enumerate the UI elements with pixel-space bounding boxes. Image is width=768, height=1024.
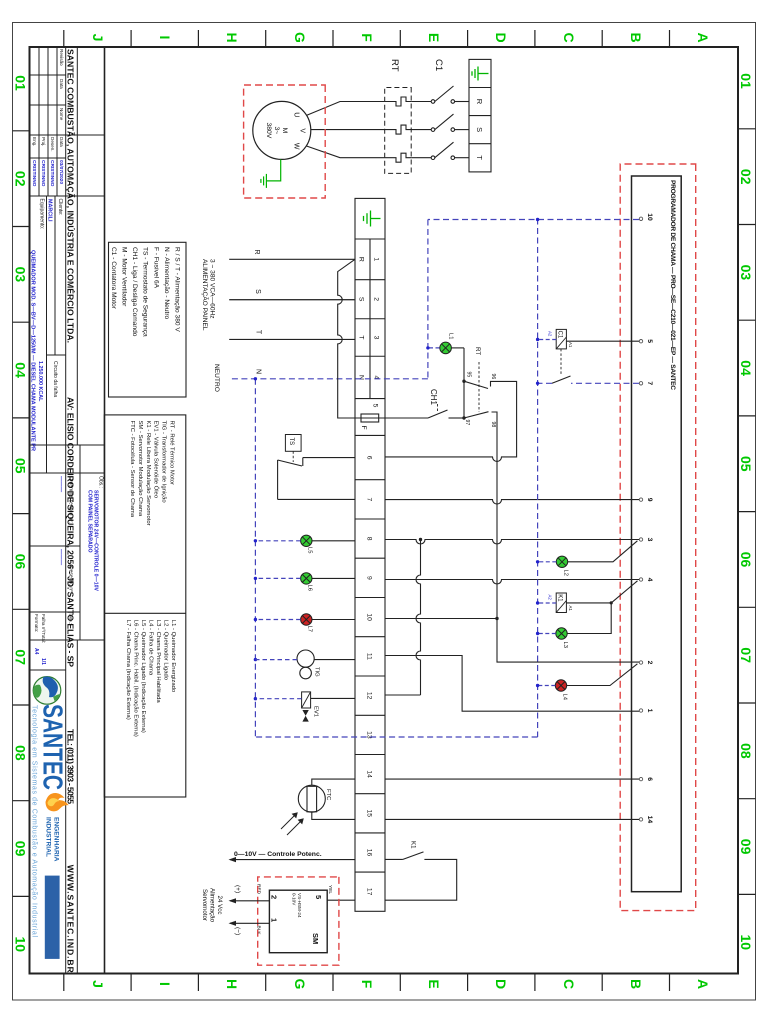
programmer terminal circles	[639, 217, 642, 821]
svg-text:Servomotor: Servomotor	[201, 889, 208, 921]
svg-text:———: ———	[58, 549, 64, 566]
svg-text:Proj.: Proj.	[41, 137, 46, 146]
wire terminal 4 diagonal to K1	[566, 581, 637, 603]
svg-text:YEL: YEL	[327, 885, 333, 894]
svg-text:Data: Data	[59, 79, 64, 89]
svg-text:10: 10	[646, 213, 653, 221]
lamp L2	[556, 556, 567, 567]
svg-text:A: A	[695, 979, 711, 989]
wire RT to motor U	[307, 102, 385, 116]
svg-text:24 Vcc: 24 Vcc	[216, 896, 223, 915]
feed labels R S T N	[253, 249, 262, 374]
svg-text:K1: K1	[557, 594, 563, 602]
SM plus wire	[230, 900, 269, 902]
svg-text:H: H	[224, 32, 240, 42]
contact C1 aux link dashed	[560, 349, 562, 374]
svg-text:S: S	[358, 297, 365, 302]
svg-text:L4 - Falha de Chama: L4 - Falha de Chama	[148, 620, 154, 676]
title block drawing number field	[58, 549, 74, 593]
svg-text:04: 04	[13, 362, 29, 378]
wire FTC to cell 15	[312, 812, 355, 819]
svg-text:09: 09	[13, 841, 29, 857]
svg-text:E: E	[426, 979, 442, 988]
svg-text:(−): (−)	[234, 927, 241, 935]
svg-text:R / S / T - Alimentação 380 V: R / S / T - Alimentação 380 V	[174, 247, 181, 332]
svg-text:1/1: 1/1	[40, 658, 46, 665]
svg-text:G: G	[292, 32, 308, 43]
svg-text:FTC - Fotocélula - Sensor de C: FTC - Fotocélula - Sensor de Chama	[129, 421, 135, 518]
svg-text:3 ~ 380 VCA—60Hz: 3 ~ 380 VCA—60Hz	[209, 259, 216, 319]
svg-text:L2: L2	[563, 570, 569, 576]
svg-text:Alimentação: Alimentação	[209, 888, 216, 923]
svg-text:380V: 380V	[265, 122, 272, 138]
svg-text:97: 97	[464, 420, 470, 426]
svg-text:Obs.:: Obs.:	[98, 476, 104, 488]
wire L3 to blue rail	[538, 633, 556, 635]
wire terminal 9 to cell 7	[385, 500, 639, 505]
blue stub L5	[255, 540, 300, 542]
svg-text:A4: A4	[33, 648, 39, 655]
svg-text:T: T	[358, 335, 365, 339]
svg-text:Tecnologia em Sistemas de Comb: Tecnologia em Sistemas de Combustão e Au…	[31, 705, 38, 937]
svg-text:L4: L4	[562, 694, 568, 701]
svg-text:V: V	[299, 128, 306, 133]
svg-text:SANTEC: SANTEC	[38, 704, 69, 790]
wire terminal 4 to cell 9	[385, 580, 639, 585]
logo blue bar	[45, 876, 60, 959]
grid tick marks bottom edge	[13, 131, 30, 897]
svg-text:L7 - Falha Chama (Indicação Ex: L7 - Falha Chama (Indicação Externa)	[125, 620, 131, 720]
title block obs field	[58, 476, 104, 592]
svg-text:A1: A1	[568, 342, 573, 348]
svg-text:CRISTINNO: CRISTINNO	[31, 160, 37, 187]
svg-text:F - Fusível 6A: F - Fusível 6A	[152, 247, 159, 289]
wire EV1 to cell 12	[311, 697, 355, 699]
svg-text:SM: SM	[311, 933, 320, 944]
logo engenharia industrial text	[45, 817, 60, 862]
programmer terminal numbers	[646, 213, 653, 823]
blue rail right leg	[255, 736, 537, 738]
title block client field	[39, 199, 64, 230]
svg-text:WWW.SANTEC.IND.BR: WWW.SANTEC.IND.BR	[66, 865, 76, 974]
red dashed box around motor	[244, 85, 326, 198]
svg-text:3: 3	[646, 538, 653, 542]
svg-text:CRISTINNO: CRISTINNO	[49, 160, 55, 187]
wire cell 10 to 98 rail	[385, 618, 497, 620]
control signal arrowhead	[229, 857, 237, 862]
wire L7 to cell 10	[312, 619, 355, 621]
svg-text:TIG - Transformador de Ignição: TIG - Transformador de Ignição	[161, 421, 167, 504]
svg-text:T: T	[475, 155, 484, 160]
svg-text:B: B	[628, 32, 644, 42]
svg-text:1: 1	[646, 709, 653, 713]
svg-text:F: F	[359, 980, 375, 989]
svg-text:7: 7	[366, 498, 373, 502]
svg-text:10: 10	[366, 613, 373, 621]
blue rail neutral top	[537, 219, 539, 738]
svg-text:N: N	[255, 369, 262, 374]
wire S phase feed	[229, 299, 355, 301]
svg-text:07: 07	[13, 649, 29, 665]
svg-text:S: S	[475, 127, 484, 132]
svg-text:M: M	[281, 128, 288, 134]
motor M1 circle	[253, 101, 311, 159]
svg-text:9: 9	[366, 576, 373, 580]
svg-text:ENGENHARIA: ENGENHARIA	[53, 817, 60, 862]
lamp L6	[301, 573, 312, 584]
svg-text:CRISTINNO: CRISTINNO	[40, 160, 46, 187]
svg-text:SANTEC COMBUSTÃO, AUTOMAÇÃO, I: SANTEC COMBUSTÃO, AUTOMAÇÃO, INDÚSTRIA E…	[66, 49, 77, 343]
svg-text:COM PAINEL SEPARADO: COM PAINEL SEPARADO	[87, 490, 93, 553]
svg-text:TS: TS	[288, 438, 294, 446]
logo globe icon	[33, 677, 61, 705]
svg-text:Circuito da falha: Circuito da falha	[52, 361, 58, 397]
junction dot rail 347	[419, 538, 422, 541]
svg-text:2: 2	[270, 895, 279, 899]
title block circuit field	[37, 361, 58, 402]
transformer TIG	[297, 650, 314, 679]
feed source label 380VCA	[201, 259, 216, 331]
svg-text:15: 15	[366, 810, 373, 818]
wire fuse to CH1	[379, 417, 428, 419]
valve EV1	[302, 692, 311, 722]
svg-text:EV1 - Válvula Solenóide Óleo: EV1 - Válvula Solenóide Óleo	[153, 421, 160, 499]
svg-text:7: 7	[646, 381, 653, 385]
strip numbers 1-4	[373, 257, 380, 379]
lamp L4	[555, 680, 566, 691]
svg-text:05: 05	[738, 456, 754, 472]
red dashed box around SM	[258, 877, 339, 965]
RT aux contact 97-98	[464, 412, 639, 662]
svg-text:08: 08	[13, 745, 29, 761]
svg-text:RT - Relé Térmico Motor: RT - Relé Térmico Motor	[169, 421, 175, 486]
SM box pin labels	[270, 895, 324, 944]
svg-text:L5: L5	[307, 547, 313, 553]
svg-text:F: F	[360, 426, 367, 430]
svg-text:BLK: BLK	[256, 926, 262, 936]
svg-text:8: 8	[366, 537, 373, 541]
svg-text:6: 6	[366, 456, 373, 460]
svg-text:I: I	[157, 982, 173, 986]
wire L4 to blue rail	[538, 685, 556, 687]
svg-text:L1 - Queimador Energizado: L1 - Queimador Energizado	[170, 620, 176, 693]
programmer box	[632, 176, 682, 892]
wire L2 to blue rail	[538, 561, 557, 563]
blue rail L1 level	[427, 220, 429, 379]
svg-text:W: W	[293, 143, 300, 150]
wire L5 to cell 8	[312, 540, 355, 542]
svg-text:(+): (+)	[234, 885, 241, 893]
svg-text:N - Alimentação - Neutro: N - Alimentação - Neutro	[163, 247, 170, 320]
grid reference numbers top edge	[738, 73, 754, 950]
legend box 2	[104, 415, 186, 797]
wire RT to motor W	[307, 146, 385, 158]
wire TIG to cell 11	[314, 659, 355, 661]
wire L1 to node A	[451, 347, 464, 349]
wire R phase feed	[229, 258, 355, 260]
svg-text:FTC: FTC	[325, 789, 331, 800]
legend box 2 right column text	[125, 620, 176, 737]
grid tick marks left edge	[64, 30, 670, 47]
svg-text:2: 2	[373, 297, 380, 301]
svg-text:07: 07	[738, 647, 754, 663]
svg-text:PROGRAMADOR DE CHAMA — P: PROGRAMADOR DE CHAMA — PRO—SE—C210—021—E…	[669, 180, 676, 390]
control signal 0-10V line	[230, 859, 355, 861]
svg-text:VS-HSM-24: VS-HSM-24	[297, 893, 302, 918]
svg-text:6: 6	[646, 777, 653, 781]
svg-text:96: 96	[490, 374, 496, 380]
blue stub L6	[255, 577, 300, 579]
svg-text:J: J	[90, 34, 106, 42]
SM minus wire	[230, 922, 269, 924]
svg-text:14: 14	[646, 816, 653, 824]
wire cell 11 to terminal 1	[385, 656, 639, 712]
wire terminal 14 to cell 15	[385, 818, 639, 820]
svg-text:5: 5	[646, 339, 653, 343]
svg-text:D: D	[493, 979, 509, 989]
contact C1 aux blade	[552, 376, 571, 383]
fuse F in strip cell 5	[361, 414, 379, 422]
lamp L7	[301, 614, 312, 625]
svg-text:SERVOMOTOR 24V—CONTROLE 0—10V: SERVOMOTOR 24V—CONTROLE 0—10V	[93, 490, 99, 592]
svg-text:Equipamento:: Equipamento:	[39, 199, 45, 230]
blue junction dots	[254, 218, 540, 701]
svg-text:R: R	[475, 99, 484, 105]
motor ground symbol	[261, 174, 267, 188]
supply terminal block GND R S T	[469, 59, 491, 171]
wire terminal 5 to coil C1	[566, 340, 639, 342]
legend box 2 left column text	[129, 421, 175, 526]
svg-text:SM - Servomotor Modulação Cham: SM - Servomotor Modulação Chama	[137, 421, 143, 517]
svg-text:A: A	[695, 32, 711, 42]
svg-text:TIG: TIG	[314, 667, 320, 677]
motor M 3~ 380V label	[265, 122, 288, 138]
svg-text:01: 01	[13, 75, 29, 91]
svg-text:0-10V: 0-10V	[292, 893, 297, 906]
svg-text:H: H	[224, 979, 240, 989]
svg-text:C1 - Contatora Motor: C1 - Contatora Motor	[110, 247, 117, 310]
svg-text:K1: K1	[410, 841, 417, 849]
svg-text:L3 - Chama Principal Habilitad: L3 - Chama Principal Habilitada	[155, 620, 161, 704]
motor terminal labels	[293, 112, 306, 150]
svg-text:QUEIMADOR MOD. S—BV—D—1250/M —: QUEIMADOR MOD. S—BV—D—1250/M — DIESEL CH…	[30, 250, 36, 451]
node junction dots on node A	[462, 380, 465, 383]
svg-text:5: 5	[314, 895, 323, 899]
svg-text:A2: A2	[548, 595, 553, 601]
svg-text:4: 4	[646, 578, 653, 582]
svg-text:17: 17	[366, 888, 373, 896]
blue stub L1	[428, 347, 440, 349]
svg-text:Data: Data	[59, 137, 64, 147]
svg-text:INDUSTRIAL: INDUSTRIAL	[45, 817, 52, 857]
strip phase labels R S T N	[358, 257, 365, 380]
svg-text:E: E	[426, 33, 442, 42]
svg-text:RT: RT	[474, 347, 481, 355]
svg-text:I: I	[157, 36, 173, 40]
svg-text:Falha nº/Total:: Falha nº/Total:	[41, 614, 46, 643]
title block sheet fields	[33, 614, 74, 666]
wire terminal 2 diagonal to lamp L4	[567, 664, 638, 686]
svg-text:B: B	[628, 979, 644, 989]
main terminal strip	[355, 198, 385, 911]
wire K1 node to lamp L3	[567, 603, 611, 634]
svg-text:06: 06	[13, 554, 29, 570]
svg-text:0—10V — Controle Potenc.: 0—10V — Controle Potenc.	[234, 851, 322, 858]
wire rail 347 cell 8 to cell 12	[416, 540, 421, 696]
svg-text:Nome: Nome	[59, 108, 64, 121]
svg-text:09: 09	[738, 839, 754, 855]
wire RT to motor V	[311, 129, 385, 131]
svg-text:NEUTRO: NEUTRO	[213, 364, 220, 392]
svg-text:5: 5	[372, 404, 379, 408]
svg-text:2: 2	[646, 661, 653, 665]
svg-text:C: C	[561, 32, 577, 42]
wire FTC to cell 14	[312, 779, 355, 785]
junction dot 98 rail cell 10	[495, 617, 498, 620]
grid reference numbers bottom edge	[13, 75, 29, 952]
wire N neutral feed blue dashed	[229, 378, 428, 380]
svg-text:02: 02	[13, 171, 29, 187]
blue wire terminal 7 drop	[571, 382, 639, 384]
svg-text:3: 3	[373, 336, 380, 340]
svg-text:08: 08	[738, 743, 754, 759]
svg-text:TS - Termostato de Segurança: TS - Termostato de Segurança	[142, 247, 149, 337]
contactor C1 main contacts	[411, 86, 469, 160]
svg-text:06: 06	[738, 552, 754, 568]
wire terminal 3 diagonal to lamp L2	[568, 541, 638, 562]
svg-text:CH1 - Liga / Desliga Comando: CH1 - Liga / Desliga Comando	[131, 247, 138, 337]
wire L6 to cell 9	[312, 577, 355, 579]
svg-text:L5 - Queimador Ligado (Indicaç: L5 - Queimador Ligado (Indicação Externa…	[140, 620, 146, 733]
thermostat TS box	[285, 435, 301, 452]
svg-text:C1: C1	[433, 59, 444, 71]
svg-text:EV1: EV1	[313, 706, 319, 717]
svg-text:F: F	[359, 33, 375, 42]
coil C1	[556, 329, 566, 349]
switch CH1	[428, 410, 464, 418]
svg-text:Cliente:: Cliente:	[57, 199, 63, 216]
blue stub L7	[255, 619, 300, 621]
servomotor SM box	[269, 890, 327, 953]
wire SM pin5 riser	[327, 899, 355, 901]
thermal relay RT elements	[385, 97, 412, 162]
svg-text:D: D	[493, 32, 509, 42]
svg-text:1.250.000 KCAL: 1.250.000 KCAL	[37, 361, 43, 402]
svg-text:A1: A1	[568, 606, 573, 612]
svg-text:MARCILI: MARCILI	[47, 199, 53, 222]
svg-text:03/07/2020: 03/07/2020	[58, 160, 64, 184]
SM supply text	[201, 888, 223, 923]
svg-text:14: 14	[366, 770, 373, 778]
FTC light arrows	[281, 815, 302, 836]
svg-text:CH1: CH1	[429, 389, 438, 406]
svg-text:Revisão: Revisão	[59, 49, 64, 66]
wire T phase feed	[229, 338, 355, 340]
grid reference letters right edge	[90, 979, 711, 990]
SM wire labels	[256, 884, 334, 935]
svg-text:9: 9	[646, 498, 653, 502]
svg-text:C: C	[561, 979, 577, 989]
svg-text:10: 10	[13, 937, 29, 953]
title block revision table headers	[59, 49, 64, 121]
supply block labels R S T	[475, 99, 484, 161]
wire cell 12 riser	[385, 694, 421, 696]
photocell FTC	[298, 785, 325, 812]
svg-text:1: 1	[270, 918, 279, 922]
svg-text:04: 04	[738, 360, 754, 376]
RT aux contact 95-96	[385, 381, 517, 461]
svg-text:L6 - Chama Princ. Habil. (Indi: L6 - Chama Princ. Habil. (Indicação Exte…	[133, 620, 139, 737]
svg-text:13: 13	[366, 731, 373, 739]
svg-text:R: R	[253, 249, 260, 254]
svg-text:Formato:: Formato:	[34, 614, 39, 632]
svg-text:T: T	[255, 330, 262, 335]
svg-text:RED: RED	[256, 884, 262, 895]
lamp L5	[301, 535, 312, 546]
title block company name line	[66, 49, 77, 973]
title block grid	[30, 47, 105, 974]
svg-text:02: 02	[738, 169, 754, 185]
svg-text:M - Motor Ventilador: M - Motor Ventilador	[121, 247, 128, 307]
motor ground wire green	[266, 159, 280, 181]
title block logo cell divider	[30, 669, 66, 671]
svg-text:L7: L7	[307, 626, 313, 632]
svg-text:Eng.: Eng.	[32, 137, 37, 146]
legend box 1 text	[110, 247, 181, 337]
svg-text:03: 03	[738, 265, 754, 281]
lamp L3	[556, 628, 567, 639]
svg-text:L6: L6	[307, 585, 313, 591]
lamp L1	[440, 342, 452, 354]
blue stub EV1	[255, 698, 301, 700]
ground symbol in strip cell	[364, 211, 381, 227]
TS contact between cells 6 and 7	[278, 458, 355, 500]
svg-text:95: 95	[466, 372, 472, 378]
svg-text:RT: RT	[389, 59, 400, 72]
coil K1	[556, 593, 566, 613]
logo flame icon	[46, 793, 69, 811]
wire C1 coil to blue rail	[538, 339, 557, 341]
svg-text:12: 12	[366, 692, 373, 700]
svg-text:01: 01	[738, 73, 754, 89]
SM model text	[292, 893, 303, 918]
junction dot K1 node	[610, 601, 613, 604]
svg-text:11: 11	[366, 653, 373, 660]
svg-text:10: 10	[738, 935, 754, 951]
TS link dashed	[292, 451, 294, 462]
grid tick marks top edge	[738, 129, 756, 895]
wire K1 coil to blue rail	[538, 602, 557, 604]
blue wire terminal 10 drop	[428, 219, 639, 221]
svg-text:Desen.: Desen.	[50, 137, 55, 152]
svg-text:1: 1	[373, 257, 380, 261]
wire R bypass to fuse	[338, 259, 361, 418]
svg-text:C1: C1	[557, 331, 563, 339]
thermal relay RT box	[385, 88, 412, 174]
svg-text:16: 16	[366, 849, 373, 857]
red dashed box around programmer	[620, 164, 696, 911]
svg-text:———: ———	[58, 476, 64, 493]
blue stub TIG	[255, 659, 297, 661]
legend box 1	[109, 242, 187, 397]
svg-text:S: S	[254, 289, 261, 294]
svg-text:98: 98	[490, 422, 496, 428]
svg-text:K1 - Rele Libera Modulação Ser: K1 - Rele Libera Modulação Servomotor	[145, 421, 151, 526]
wire cell 7 below strip	[278, 498, 355, 500]
svg-text:G: G	[292, 979, 308, 990]
svg-text:A2: A2	[548, 331, 553, 337]
svg-text:03: 03	[13, 267, 29, 283]
